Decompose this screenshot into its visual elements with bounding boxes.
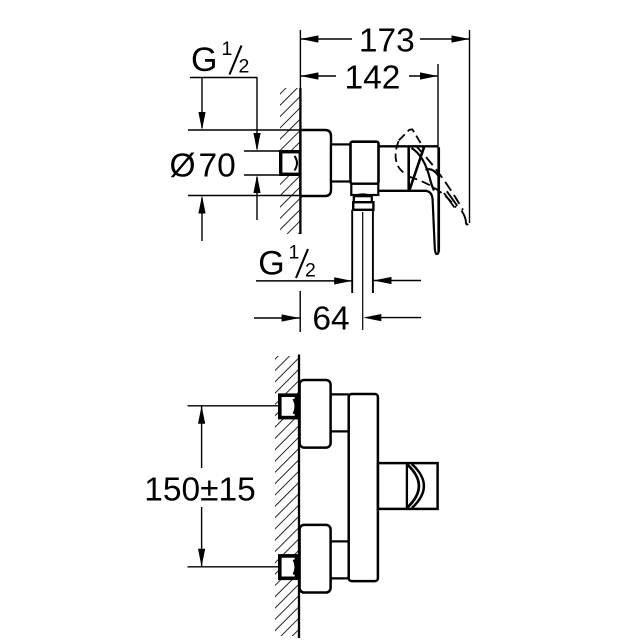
dome fan arc xyxy=(412,148,435,191)
svg-text:70: 70 xyxy=(199,148,236,185)
outlet pipe left edge xyxy=(351,210,353,293)
upper escutcheon (front view) xyxy=(300,380,331,448)
svg-text:64: 64 xyxy=(312,301,349,338)
extension line dia70 bottom xyxy=(188,195,300,197)
outlet spout (front view) xyxy=(378,463,438,509)
cartridge right edge xyxy=(407,148,410,191)
lower escutcheon (front view) xyxy=(300,525,331,593)
cartridge housing top edge xyxy=(378,145,437,147)
wall hatch (top view) xyxy=(280,88,300,234)
dashed handle raised position: tent xyxy=(399,129,424,147)
svg-text:G: G xyxy=(191,41,217,79)
dimension 142 xyxy=(300,60,438,97)
escutcheon (side view) xyxy=(300,130,331,196)
neck xyxy=(331,144,351,181)
G1/2 fitting top arrow (down) xyxy=(253,78,260,152)
G1/2 leader with right arrow xyxy=(256,277,352,284)
dome diagonal xyxy=(410,147,424,189)
svg-text:2: 2 xyxy=(305,260,316,282)
lever notch arc xyxy=(426,169,440,177)
collar top arc xyxy=(354,194,372,196)
svg-text:173: 173 xyxy=(359,23,415,60)
svg-text:1: 1 xyxy=(222,38,233,60)
label G 1/2 (wall union thread) xyxy=(190,38,258,79)
lever blade (solid, down position) xyxy=(426,147,439,254)
lever edge double stroke xyxy=(444,193,455,208)
dashed lever lower curve xyxy=(409,177,457,208)
upper supply fitting box xyxy=(280,395,297,417)
upper step adapter xyxy=(331,394,349,431)
lower step adapter xyxy=(331,541,349,578)
dia 70 bottom arrow (up) xyxy=(198,196,205,242)
svg-text:G: G xyxy=(258,245,284,283)
wall face line (bottom view) xyxy=(298,355,300,639)
label G 1/2 (shower hose thread) xyxy=(258,242,316,283)
svg-text:2: 2 xyxy=(239,56,250,78)
pipe centerline xyxy=(362,212,364,330)
extension line dia70 top xyxy=(188,129,300,131)
extension line 142 right xyxy=(437,64,439,148)
G1/2 fitting bottom arrow (up) xyxy=(253,175,260,220)
dimension 64 xyxy=(254,291,421,338)
extension line fitting bottom xyxy=(244,174,280,176)
valve body (front view) xyxy=(349,394,378,581)
dashed lever tip hook xyxy=(462,211,469,225)
svg-text:150±15: 150±15 xyxy=(144,471,256,508)
lower supply fitting box xyxy=(280,556,297,578)
bottom flange xyxy=(351,184,378,195)
svg-text:Ø: Ø xyxy=(170,148,196,185)
dimension 173 xyxy=(300,23,469,60)
G1/2 right side arrow (left pointing) xyxy=(374,277,422,284)
dashed dome left arc xyxy=(396,141,404,172)
wall hatch (bottom view) xyxy=(275,356,299,636)
dimension 150±15 xyxy=(144,406,278,567)
valve body (side view) xyxy=(351,142,379,184)
outlet pipe right edge xyxy=(372,210,374,293)
cap bottom edge xyxy=(378,190,427,192)
extension line 173 right xyxy=(469,30,471,223)
dia 70 top arrow (down) xyxy=(198,78,205,131)
outlet nut xyxy=(353,202,373,210)
dashed lever upper line xyxy=(416,146,464,211)
svg-text:142: 142 xyxy=(345,60,401,97)
supply fitting box in wall (side view) xyxy=(281,152,301,175)
outlet collar xyxy=(354,196,372,202)
wall face line / left extension line xyxy=(299,30,301,89)
extension line fitting top xyxy=(244,150,280,152)
svg-text:1: 1 xyxy=(289,242,300,264)
